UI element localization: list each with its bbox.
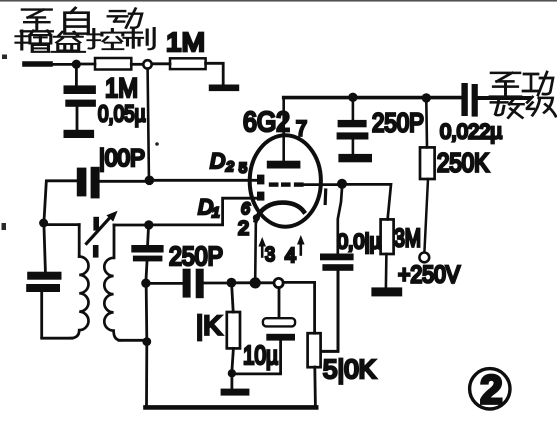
hanzi zi (auto) bbox=[65, 8, 89, 34]
wire right coil top stem bbox=[113, 225, 116, 258]
wire 3M bottom stem bbox=[385, 254, 388, 287]
node dot 250P top bbox=[348, 93, 357, 102]
wire vertical down to coil-bottom node bbox=[145, 287, 148, 339]
node blob cathode-envelope junction bbox=[253, 214, 260, 221]
wire grid out pin1 bbox=[304, 183, 338, 186]
tube grid dash 2 bbox=[281, 182, 291, 186]
wire tank cap bottom stem bbox=[40, 292, 43, 337]
wire ring to 510K corner bbox=[283, 282, 314, 333]
wire grid row to D1 step bbox=[153, 198, 257, 225]
wire tank bottom horizontal bbox=[42, 337, 72, 340]
wire 10u top stem bbox=[278, 288, 281, 319]
hanzi zhi4 (control-2) bbox=[124, 28, 154, 49]
wire AGC lead-in thick start bbox=[25, 61, 50, 67]
svg-text:4: 4 bbox=[285, 245, 296, 267]
svg-text:|K: |K bbox=[196, 311, 222, 341]
svg-text:5: 5 bbox=[239, 160, 247, 176]
tube grid dash 1 bbox=[269, 182, 279, 186]
wire 100P left lead bbox=[47, 179, 78, 182]
wire cathode row to coupling cap bbox=[150, 282, 183, 285]
capacitor 250P top plate1 bbox=[338, 120, 367, 127]
node AGC junction dot bbox=[72, 60, 81, 69]
wire vertical node to cap250P(series) bbox=[146, 229, 150, 245]
wire AGC lead-in bbox=[25, 63, 74, 66]
resistor 1M (AGC series a) bbox=[95, 58, 131, 70]
ground bar cathode bbox=[221, 389, 250, 396]
tube cathode arc bbox=[256, 203, 304, 221]
capacitor 100P plate2 bbox=[91, 167, 100, 199]
capacitor 250P series plate1 bbox=[131, 245, 163, 253]
hanzi annotations bbox=[16, 8, 556, 118]
tube grid dash 3 bbox=[294, 182, 304, 186]
wire bottom bus bbox=[146, 405, 317, 410]
svg-text:3: 3 bbox=[265, 244, 275, 266]
svg-text:6: 6 bbox=[241, 199, 251, 218]
tube anode plate bar bbox=[267, 161, 301, 169]
heater pin4 arrowhead bbox=[297, 235, 305, 245]
hanzi zhi (to) TR bbox=[490, 73, 521, 97]
capacitor 250P coupling plate1 bbox=[183, 269, 191, 298]
capacitor 250P series plate2 bbox=[133, 256, 163, 262]
ground bar for 0.05u bbox=[64, 130, 95, 138]
wire 1K bottom stem bbox=[232, 348, 233, 369]
tuning core dash 1 bbox=[93, 217, 99, 231]
heater pin3 arrowhead bbox=[258, 237, 266, 247]
capacitor 0.022u plate1 bbox=[461, 83, 467, 116]
wire tank top horizontal to left coil bbox=[47, 223, 79, 226]
svg-text:5|0K: 5|0K bbox=[323, 356, 376, 384]
wire 0.05u bottom stem bbox=[76, 107, 79, 130]
wire 100P right lead bbox=[100, 180, 146, 183]
svg-text:2: 2 bbox=[480, 367, 503, 413]
svg-text:0,05µ: 0,05µ bbox=[98, 101, 146, 127]
hanzi ji (amp-2) bbox=[527, 97, 556, 116]
svg-text:0,022µ: 0,022µ bbox=[440, 120, 502, 144]
wire junction to R 1M(a) bbox=[80, 63, 95, 66]
capacitor 10u minus plate bbox=[266, 334, 295, 341]
hanzi gong (power-1) bbox=[523, 72, 553, 95]
hanzi fang (amp-1) bbox=[491, 97, 523, 118]
capacitor 0.022u plate2 bbox=[472, 84, 478, 117]
heater pin3 stem bbox=[261, 246, 264, 257]
svg-text:10µ: 10µ bbox=[243, 340, 278, 370]
capacitor 0.01u plate2 bbox=[322, 264, 353, 271]
capacitor 100P plate1 bbox=[77, 168, 87, 197]
capacitor 250P coupling plate2 bbox=[196, 269, 204, 299]
svg-text:3M: 3M bbox=[394, 225, 421, 253]
svg-text:1: 1 bbox=[212, 204, 220, 220]
capacitor tank plate2 bbox=[26, 284, 60, 292]
resistor 250K bbox=[420, 147, 435, 179]
tube 6G2 envelope bbox=[250, 135, 321, 226]
node dot 250K top bbox=[422, 93, 431, 102]
wire vertical from 1M node down to D2 node bbox=[148, 69, 149, 176]
capacitor 250P top plate2 bbox=[337, 132, 369, 139]
wire 250K top stem bbox=[425, 100, 428, 147]
wire secondary top horizontal to node bbox=[114, 224, 146, 227]
wire R1Ma to node bbox=[131, 63, 143, 66]
wire vertical cap to cathode-row node bbox=[146, 261, 147, 280]
ground bar 3M bbox=[371, 287, 402, 296]
node ring between 1M resistors bbox=[143, 60, 151, 68]
inductor secondary coil bbox=[104, 258, 121, 341]
node dot 100P / D2 wire / AGC vertical bbox=[145, 176, 155, 186]
node ring +250V terminal bbox=[419, 253, 429, 263]
wire 1K top stem bbox=[232, 287, 233, 312]
svg-text:0,0|µ: 0,0|µ bbox=[337, 231, 381, 254]
hanzi zeng (gain-1) bbox=[16, 31, 51, 52]
hanzi dong (motion) bbox=[108, 8, 142, 27]
svg-text:1M: 1M bbox=[166, 27, 205, 57]
tuning core dash 2 bbox=[93, 245, 99, 258]
svg-text:250P: 250P bbox=[372, 108, 424, 138]
scan speck left edge a bbox=[2, 55, 7, 60]
node dot 1K top bbox=[227, 278, 237, 288]
svg-text:2: 2 bbox=[225, 158, 234, 174]
capacitor tank plate1 bbox=[27, 272, 61, 280]
tuning core arrowhead bbox=[106, 211, 117, 222]
heater pin4 stem bbox=[299, 244, 302, 255]
wire 0.01u bottom stem bbox=[322, 271, 338, 352]
svg-text:D: D bbox=[210, 150, 225, 173]
wire 250K to +250V bbox=[424, 179, 428, 252]
resistor 510K bbox=[308, 333, 321, 367]
svg-text:2: 2 bbox=[238, 219, 249, 240]
node dot left tank top bbox=[39, 219, 48, 228]
wire anode stem pin7 bbox=[282, 98, 285, 162]
wire node to R 1M(b) bbox=[152, 62, 170, 65]
wire coupling cap to 1K node bbox=[204, 282, 228, 285]
wire 0.01u slanted stem bbox=[338, 188, 342, 253]
wire pin1 to 3M corner bbox=[346, 184, 391, 219]
svg-text:|00P: |00P bbox=[99, 145, 145, 172]
wire vertical down to bottom bus bbox=[145, 345, 148, 406]
wire cathode pin2 vertical bbox=[254, 218, 257, 281]
wire to cathode node bbox=[235, 281, 251, 284]
wire 250P stem bbox=[352, 100, 355, 120]
capacitor 0.05u plate2 bbox=[65, 100, 96, 107]
ground bar for 1M(b) bbox=[209, 85, 239, 92]
ground bar 250P bbox=[338, 154, 372, 162]
wire 510K bottom stem bbox=[313, 367, 316, 407]
wire 100P left drop to tank node bbox=[44, 182, 46, 222]
node dot cathode lead bbox=[250, 277, 261, 288]
wire 0.05u top stem bbox=[75, 68, 78, 86]
wire anode bus top bbox=[284, 96, 461, 100]
label pin 1 bbox=[324, 190, 328, 204]
hanzi kong (control-1) bbox=[88, 29, 123, 49]
capacitor 10u plus plate (hollow) bbox=[263, 318, 295, 326]
wire secondary bottom to main vertical bbox=[119, 339, 146, 342]
wire 0.022u output lead bbox=[478, 96, 529, 100]
resistor 1M (AGC series b) bbox=[170, 58, 206, 69]
wire to ground 1K bbox=[230, 377, 233, 389]
wire R1Mb to ground bbox=[206, 63, 224, 84]
circled figure number 2 bbox=[470, 369, 510, 409]
wire 250P lower stem bbox=[352, 140, 355, 155]
node dot secondary top bbox=[144, 220, 153, 229]
capacitor 0.05u plate1 bbox=[64, 85, 96, 94]
tube diode plate D2 square bbox=[257, 175, 264, 185]
wire to bypass ring bbox=[260, 281, 274, 284]
svg-text:250K: 250K bbox=[437, 150, 489, 178]
svg-text:7: 7 bbox=[296, 118, 307, 141]
svg-text:1M: 1M bbox=[105, 73, 138, 103]
scan speck mid bbox=[155, 142, 159, 146]
scan speck left edge b bbox=[2, 223, 7, 230]
node ring 10u top bbox=[274, 278, 283, 287]
svg-text:D: D bbox=[198, 196, 213, 219]
wire left coil top stem bbox=[78, 225, 81, 257]
hanzi yi (gain-2) bbox=[52, 32, 84, 52]
tuning core arrow shaft bbox=[87, 218, 111, 244]
wire 10u bottom stem and return bbox=[236, 341, 281, 374]
svg-text:+250V: +250V bbox=[398, 262, 460, 289]
hanzi zhi (to) line1 bbox=[21, 10, 52, 32]
node dot 1K bottom bbox=[228, 369, 236, 377]
node dot cathode row left bbox=[141, 279, 150, 288]
node dot coil bottom bbox=[142, 337, 151, 346]
inductor primary coil bbox=[70, 257, 89, 339]
resistor 3M bbox=[381, 219, 394, 254]
svg-text:250P: 250P bbox=[169, 243, 223, 271]
tube diode plate D1 square bbox=[257, 192, 264, 201]
wire pin1 junction bbox=[337, 179, 347, 189]
capacitor 0.01u plate1 bbox=[320, 254, 354, 261]
wire tank cap top stem bbox=[44, 227, 45, 272]
wire D2 horizontal to tube pin5 bbox=[153, 179, 257, 182]
scan border top edge bbox=[0, 0, 557, 2]
resistor 1K bbox=[227, 312, 240, 348]
